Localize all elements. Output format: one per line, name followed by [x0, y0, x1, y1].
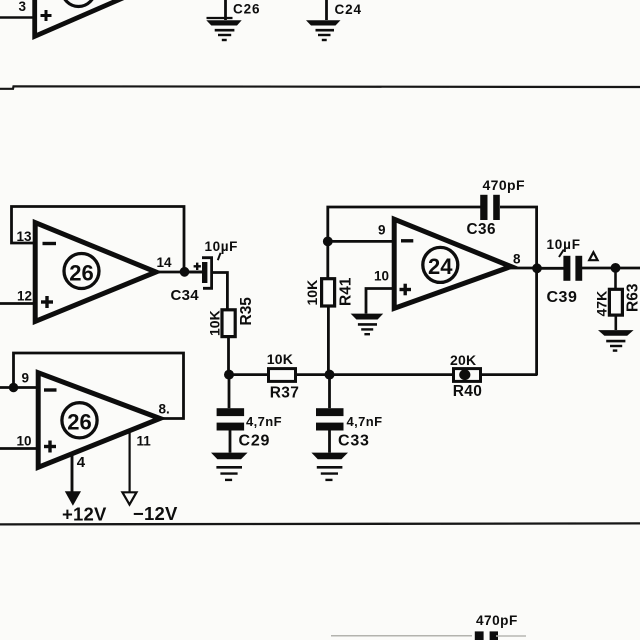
wire (bottom section, faint)	[331, 635, 472, 637]
wire node to R41	[326, 241, 329, 279]
wire summing rail	[229, 373, 538, 376]
resistor R37	[269, 369, 296, 382]
ground (C33)	[311, 453, 348, 480]
wire node to R63	[614, 268, 617, 290]
svg-text:C24: C24	[335, 2, 362, 17]
wire feedback loop U24	[328, 207, 482, 241]
svg-text:4,7nF: 4,7nF	[347, 414, 383, 429]
resistor R63	[609, 289, 622, 315]
+ input symbol (top op-amp)	[41, 10, 52, 21]
svg-text:470pF: 470pF	[483, 177, 526, 193]
leader tick C39	[559, 250, 564, 257]
wire non-inverting input 10	[0, 447, 38, 450]
svg-text:8.: 8.	[159, 401, 170, 416]
wire R41 to node	[327, 306, 330, 375]
wiper dot R40	[459, 369, 470, 380]
triangle marker	[589, 252, 597, 260]
svg-text:C39: C39	[547, 289, 578, 306]
svg-text:26: 26	[69, 260, 93, 285]
svg-text:3: 3	[19, 0, 27, 14]
svg-text:4,7nF: 4,7nF	[246, 414, 282, 429]
wire inverting input 9	[0, 386, 38, 389]
capacitor C (bottom section, partial)	[475, 631, 484, 640]
ground (U24 +input)	[351, 314, 384, 335]
op-amp U24	[394, 219, 511, 308]
node R35/R37/C29	[224, 370, 234, 380]
resistor R41	[322, 279, 335, 306]
wire output node to C39	[537, 267, 564, 270]
wire inverting input 12	[0, 302, 35, 305]
wire pin 4 (+12V)	[71, 452, 74, 492]
svg-text:+12V: +12V	[62, 504, 107, 525]
svg-text:10: 10	[17, 433, 32, 448]
wire R35 to node	[227, 336, 230, 375]
divider line (top)	[0, 86, 640, 89]
svg-text:11: 11	[137, 433, 152, 448]
resistor R35	[222, 310, 235, 337]
svg-text:9: 9	[378, 223, 386, 238]
capacitor C33	[316, 375, 344, 453]
wire C39 to edge	[582, 267, 640, 270]
divider line (bottom)	[0, 523, 640, 524]
arrow -12V (open)	[122, 492, 136, 504]
svg-text:26: 26	[67, 410, 91, 435]
svg-text:10µF: 10µF	[205, 239, 238, 254]
svg-text:C26: C26	[233, 2, 260, 17]
wire C36 to output rail	[500, 207, 537, 375]
wire R63 to ground	[614, 315, 617, 330]
leader tick C34	[218, 253, 221, 260]
svg-text:8: 8	[513, 252, 521, 267]
node R63	[611, 263, 621, 273]
wire feedback loop U26a	[12, 207, 185, 269]
svg-text:C34: C34	[171, 287, 200, 304]
svg-text:R35: R35	[238, 297, 255, 326]
svg-text:13: 13	[17, 229, 33, 244]
op-amp U26b	[38, 373, 160, 468]
svg-text:14: 14	[157, 255, 173, 270]
arrow +12V	[65, 491, 81, 506]
svg-text:12: 12	[17, 288, 32, 303]
svg-text:10: 10	[374, 269, 389, 284]
capacitor C34	[190, 258, 212, 289]
node feedback U26b	[9, 383, 18, 392]
svg-text:C29: C29	[239, 433, 271, 450]
ground (C29)	[211, 453, 248, 480]
capacitor C36	[480, 195, 487, 220]
svg-text:C36: C36	[467, 221, 497, 238]
svg-text:470pF: 470pF	[476, 613, 518, 628]
svg-text:10K: 10K	[206, 310, 222, 336]
svg-text:10K: 10K	[304, 280, 320, 306]
svg-text:C33: C33	[338, 433, 370, 450]
capacitor C39	[563, 256, 570, 281]
wire inverting input U24	[328, 240, 394, 243]
wire non-inverting input to ground	[366, 289, 394, 314]
wire C34 to R35	[212, 273, 228, 311]
svg-text:R40: R40	[453, 383, 482, 400]
capacitor C26 to ground	[206, 0, 241, 40]
node output U24	[532, 263, 542, 273]
wire feedback loop U26b	[14, 353, 184, 419]
capacitor C29	[217, 375, 245, 453]
op-amp (partial, top edge)	[35, 0, 147, 36]
wire pin 11 (-12V)	[129, 431, 131, 492]
svg-text:R37: R37	[270, 385, 299, 402]
svg-text:10K: 10K	[267, 351, 293, 367]
wire output U26a	[155, 271, 203, 274]
ground (R63)	[598, 330, 634, 351]
svg-text:9: 9	[22, 371, 30, 386]
node R41 top	[323, 237, 333, 247]
svg-text:47K: 47K	[594, 291, 610, 317]
svg-text:R63: R63	[625, 283, 640, 312]
svg-text:20K: 20K	[450, 352, 476, 368]
svg-text:24: 24	[428, 254, 453, 279]
op-amp U26a	[35, 223, 156, 322]
svg-text:−12V: −12V	[133, 503, 178, 524]
wire pin 3 input	[0, 16, 34, 19]
resistor R40	[454, 369, 481, 382]
node R37/R41/C33	[325, 370, 335, 380]
svg-text:4: 4	[77, 454, 86, 471]
svg-text:R41: R41	[338, 277, 355, 306]
wire output U24	[510, 267, 537, 270]
capacitor C24 to ground	[306, 0, 341, 40]
node output U26a	[180, 267, 190, 277]
